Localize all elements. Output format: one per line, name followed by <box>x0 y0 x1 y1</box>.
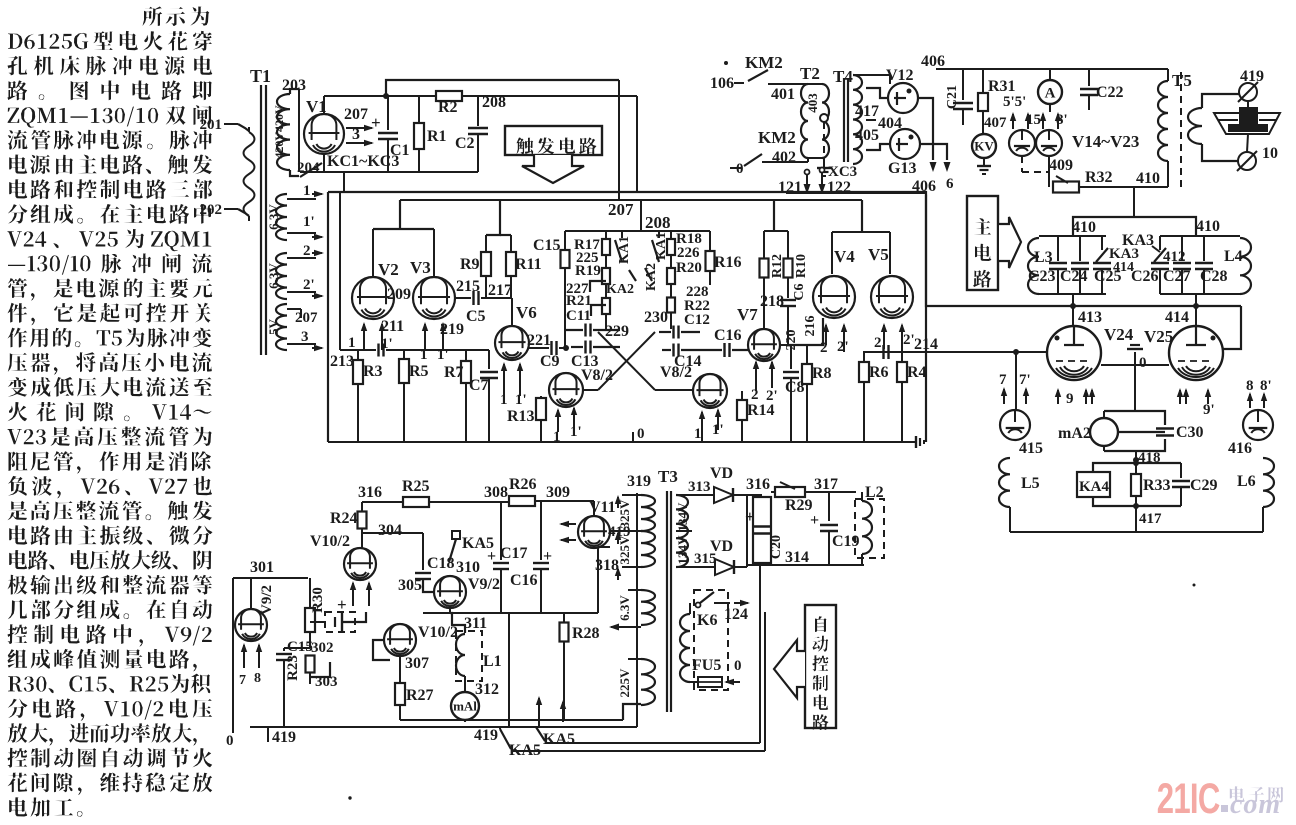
svg-text:L5: L5 <box>1021 475 1040 492</box>
svg-text:C9: C9 <box>540 353 560 370</box>
svg-text:134V: 134V <box>675 502 690 532</box>
T3 winding 225V <box>617 659 655 705</box>
svg-text:316: 316 <box>746 476 770 493</box>
svg-text:R33: R33 <box>1143 477 1171 494</box>
wire 301 bus <box>233 559 308 578</box>
wire 414 <box>1165 294 1199 326</box>
svg-text:G13: G13 <box>888 160 916 177</box>
svg-text:R10: R10 <box>794 254 809 278</box>
label 419 right <box>474 727 498 744</box>
label 406 <box>912 178 936 195</box>
svg-text:C6: C6 <box>792 283 807 300</box>
tap 1' <box>287 214 324 240</box>
svg-text:L6: L6 <box>1237 473 1256 490</box>
switch KA2 right <box>644 263 659 291</box>
svg-text:XC3: XC3 <box>828 164 857 180</box>
switch KA5 a <box>500 727 541 759</box>
svg-text:V25: V25 <box>1144 327 1173 346</box>
label 418 <box>1133 450 1161 466</box>
wire KA3 box top <box>1073 217 1196 236</box>
svg-text:0: 0 <box>1139 355 1147 371</box>
meter KV <box>972 130 996 158</box>
tube V11 <box>578 499 616 548</box>
resistor R19 <box>575 255 610 284</box>
svg-text:1: 1 <box>553 429 561 445</box>
wire 214 <box>863 336 1047 353</box>
tube V8/2 right <box>660 364 727 408</box>
wire 406 corner to 413 bus <box>926 195 1241 307</box>
resistor R11 <box>506 235 542 298</box>
svg-text:304: 304 <box>378 522 402 539</box>
wire 613 bus <box>423 612 598 614</box>
wire T5 sec bottom <box>1202 144 1240 161</box>
label 208 inner <box>641 200 671 232</box>
svg-text:C12: C12 <box>684 312 710 328</box>
wire riser 760 <box>759 565 761 743</box>
svg-text:V14~V23: V14~V23 <box>1072 132 1139 151</box>
svg-text:V9/2: V9/2 <box>468 576 500 593</box>
wire T1 203 top <box>290 89 299 172</box>
svg-text:+: + <box>487 548 496 565</box>
label 218 <box>760 293 784 310</box>
svg-text:KM2: KM2 <box>758 128 796 147</box>
label 219 <box>440 321 464 338</box>
switch KA3 left <box>1096 236 1139 275</box>
label 215 <box>456 278 480 295</box>
svg-text:T3: T3 <box>658 467 678 486</box>
wire bottom bus 417 <box>1010 531 1263 533</box>
label 221 <box>527 332 551 349</box>
resistor R26 <box>509 476 594 506</box>
resistor R8 <box>802 345 832 442</box>
resistor R16 <box>706 231 742 285</box>
wire 722 bus <box>400 704 641 720</box>
auto control arrow <box>774 640 805 698</box>
resistor R24 <box>330 502 367 529</box>
watermark cjk <box>1230 786 1283 802</box>
svg-text:1: 1 <box>348 335 356 351</box>
svg-text:VD: VD <box>710 538 733 555</box>
label 203 <box>282 77 306 94</box>
wire riser 765 <box>764 612 766 751</box>
switch KM2 upper <box>710 53 808 92</box>
svg-text:0: 0 <box>734 658 742 674</box>
svg-text:312: 312 <box>475 681 499 698</box>
damper tube b <box>1036 130 1062 156</box>
svg-text:213: 213 <box>330 353 354 370</box>
svg-text:KM2: KM2 <box>745 53 783 72</box>
wire riser 509 <box>508 613 510 727</box>
wire T1 204 bottom <box>290 170 299 176</box>
svg-text:409: 409 <box>1049 157 1073 174</box>
svg-text:R24: R24 <box>330 510 358 527</box>
svg-text:L1: L1 <box>483 653 502 670</box>
scan speck a <box>724 61 728 65</box>
T1 primary winding 201-202 <box>244 127 255 221</box>
scan speck b <box>348 796 351 799</box>
tap 3 <box>287 329 324 351</box>
label KA3 upper <box>1122 232 1160 252</box>
label 405 <box>855 127 879 144</box>
tube V1 <box>304 97 344 154</box>
tube V2 <box>352 260 399 319</box>
svg-text:218: 218 <box>760 293 784 310</box>
svg-text:0: 0 <box>226 733 234 749</box>
resistor R1 <box>414 96 447 172</box>
resistor R3 <box>353 350 383 442</box>
relay K6 box <box>694 590 728 690</box>
capacitor C6 <box>780 283 807 345</box>
svg-text:316: 316 <box>358 484 382 501</box>
wire R12 R10 top <box>764 200 788 231</box>
EDM gap electrode <box>1214 101 1280 152</box>
transformer T1 label <box>250 66 271 86</box>
tube V10/2 lower <box>373 624 458 660</box>
svg-text:230: 230 <box>644 309 668 326</box>
capacitor C12 <box>659 312 710 339</box>
label 209 <box>387 286 411 303</box>
wire 304 jog <box>362 529 423 548</box>
svg-text:R28: R28 <box>572 625 600 642</box>
svg-text:2: 2 <box>303 243 311 259</box>
wire V9/2 down <box>449 608 451 613</box>
label 225 <box>576 250 599 266</box>
svg-text:KA3: KA3 <box>1122 232 1154 249</box>
svg-text:5V: 5V <box>266 318 281 335</box>
damper tube a <box>1009 130 1035 156</box>
svg-text:6.3V: 6.3V <box>266 263 281 289</box>
svg-text:419: 419 <box>272 729 296 746</box>
capacitor C16 lower <box>510 501 552 613</box>
pins V10/2 upper <box>350 581 372 606</box>
svg-text:202: 202 <box>200 202 223 218</box>
svg-text:216: 216 <box>803 316 818 337</box>
svg-text:403: 403 <box>805 93 820 113</box>
tube G13 <box>888 129 920 177</box>
svg-text:203: 203 <box>282 77 306 94</box>
svg-text:308: 308 <box>484 484 508 501</box>
tube V9/2 (310) <box>434 576 500 608</box>
svg-text:1': 1' <box>570 424 582 440</box>
resistor R14 <box>737 391 775 442</box>
pins 9 <box>1055 388 1095 407</box>
svg-text:R32: R32 <box>1085 169 1113 186</box>
svg-text:0: 0 <box>637 426 645 442</box>
oscillator box bottom <box>328 441 912 443</box>
resistor R17 <box>574 231 610 255</box>
label 309 <box>546 484 570 501</box>
svg-text:204: 204 <box>297 160 320 176</box>
label 307 <box>405 655 429 672</box>
svg-text:2': 2' <box>837 339 849 355</box>
svg-text:T1: T1 <box>250 66 271 86</box>
svg-text:V6: V6 <box>516 303 537 322</box>
cross-coupling wires <box>582 281 694 390</box>
capacitor C19 <box>810 492 860 565</box>
resistor R21 <box>566 284 610 314</box>
svg-text:207: 207 <box>608 200 634 219</box>
T3 winding 325V a <box>617 495 655 531</box>
tap 2' <box>287 277 324 299</box>
switch K6 <box>696 592 718 629</box>
wire V25 grid right <box>1223 306 1241 349</box>
wire V24 V25 cathode link <box>1101 365 1169 411</box>
switch KM2 lower <box>730 128 808 177</box>
capacitor 211 <box>379 344 384 357</box>
label 228 <box>686 284 709 300</box>
svg-text:R21: R21 <box>566 293 592 309</box>
transformer T4 <box>833 67 862 164</box>
svg-text:229: 229 <box>605 323 629 340</box>
svg-text:R13: R13 <box>507 408 535 425</box>
svg-text:201: 201 <box>200 117 223 133</box>
svg-text:21IC: 21IC <box>1157 774 1220 822</box>
wire mA1 bottom <box>464 720 466 722</box>
trigger circuit box <box>505 126 602 155</box>
label 305 <box>398 577 422 594</box>
capacitor C11 <box>566 305 606 324</box>
svg-text:L4: L4 <box>1224 248 1243 265</box>
svg-text:3: 3 <box>352 126 360 143</box>
labels 5'5' <box>1003 94 1026 110</box>
svg-text:420V420V: 420V420V <box>272 105 286 159</box>
label V14~V23 <box>1072 132 1139 151</box>
label 213 <box>330 353 354 370</box>
main circuit banner arrow <box>999 217 1021 268</box>
connector 419 <box>1238 68 1264 102</box>
tube V7 <box>737 305 780 361</box>
svg-text:R6: R6 <box>869 364 889 381</box>
svg-text:410: 410 <box>1072 219 1096 236</box>
svg-text:6: 6 <box>946 176 954 192</box>
svg-text:9': 9' <box>1203 402 1215 418</box>
svg-text:1': 1' <box>303 214 315 230</box>
svg-text:134V: 134V <box>675 535 690 565</box>
T3 taps 325V <box>615 495 641 580</box>
label 311 <box>464 615 487 632</box>
svg-text:208: 208 <box>645 213 671 232</box>
svg-text:10: 10 <box>1262 145 1278 162</box>
tube V9/2 (301) <box>235 578 275 641</box>
svg-text:C17: C17 <box>500 545 528 562</box>
fuse FU5 <box>692 657 722 687</box>
diode VD 315 <box>694 538 747 575</box>
wire drop to osc box <box>343 172 345 192</box>
inductor L4 <box>1224 236 1251 294</box>
svg-text:KA5: KA5 <box>543 731 575 748</box>
terminal 202 <box>200 202 250 218</box>
wire T4 to G13 <box>866 144 890 150</box>
svg-text:401: 401 <box>771 86 795 103</box>
trigger box arrow down <box>522 155 584 183</box>
arrows pins <box>1010 112 1061 129</box>
svg-text:414: 414 <box>1165 309 1189 326</box>
svg-text:217: 217 <box>488 282 512 299</box>
resistor R9 <box>460 235 491 298</box>
resistor R29 <box>775 482 813 514</box>
label 318 <box>595 557 619 574</box>
svg-text:K6: K6 <box>697 612 717 629</box>
svg-text:+: + <box>745 507 755 526</box>
svg-text:405: 405 <box>855 127 879 144</box>
capacitor C24 <box>1060 236 1089 294</box>
svg-text:402: 402 <box>772 149 796 166</box>
transformer T3 label <box>658 467 678 486</box>
capacitor C8 <box>779 345 805 442</box>
T3 winding 325V b <box>617 531 655 567</box>
transformer T3 core <box>667 491 671 712</box>
wire top bus 207 <box>386 80 619 96</box>
T3 tap bus <box>636 493 638 727</box>
svg-text:310: 310 <box>456 559 480 576</box>
wire L3 bank bottom <box>1039 293 1106 295</box>
label 226 <box>677 245 700 261</box>
label 8' <box>1056 112 1068 128</box>
label 15 <box>1026 112 1041 128</box>
label 304 <box>378 522 402 539</box>
label 316 t3 <box>746 476 770 493</box>
tube V12 <box>853 67 918 113</box>
svg-text:417: 417 <box>1139 511 1162 527</box>
wire 316 bus <box>358 484 404 502</box>
capacitor C21 <box>945 69 973 125</box>
pins V8/2 left <box>553 406 582 445</box>
capacitor C13 <box>571 341 599 371</box>
svg-text:313: 313 <box>688 479 711 495</box>
wire top bus 406 <box>921 53 1166 70</box>
svg-text:407: 407 <box>984 115 1007 131</box>
capacitor C17 <box>487 501 528 613</box>
resistor R22 <box>667 284 710 314</box>
pins V5 <box>874 323 915 352</box>
resistor R31 <box>978 69 1016 130</box>
pins 9' <box>1177 388 1215 418</box>
svg-text:C16: C16 <box>714 327 742 344</box>
svg-text:R4: R4 <box>907 364 927 381</box>
capacitor C23 <box>1028 236 1067 294</box>
svg-text:C5: C5 <box>466 308 486 325</box>
T1 secondary 6.3V no.2 <box>266 253 287 299</box>
label 208 <box>478 94 506 111</box>
svg-text:FU5: FU5 <box>692 657 721 674</box>
wire 410 row <box>1079 170 1166 187</box>
label 312 <box>475 681 499 698</box>
resistor R32 <box>1049 156 1113 193</box>
svg-text:7: 7 <box>999 372 1007 388</box>
label 303 <box>310 662 338 690</box>
wire T5 sec top <box>1202 94 1240 108</box>
wire riser 563 <box>560 700 566 722</box>
capacitor C15 <box>533 231 570 348</box>
svg-text:2': 2' <box>303 277 315 293</box>
label 207 inner <box>608 200 634 219</box>
T1 winding 420V <box>272 94 290 170</box>
tap 2 <box>287 243 324 259</box>
wire K6 out <box>714 600 750 623</box>
transformer T5 core <box>1180 72 1182 188</box>
svg-text:209: 209 <box>387 286 411 303</box>
meter mA1 <box>451 692 479 720</box>
wire 214 to V24 grid <box>1013 349 1047 410</box>
capacitor C18 <box>415 533 455 592</box>
label 0 fuse <box>724 658 742 685</box>
wire bus 121 <box>786 192 926 194</box>
capacitor C2 <box>455 96 488 172</box>
tap 1 <box>287 183 324 199</box>
wire C6 to V4 <box>788 318 823 345</box>
svg-text:7': 7' <box>1019 372 1031 388</box>
svg-text:207: 207 <box>344 106 368 123</box>
label 302 <box>311 640 334 656</box>
svg-text:R19: R19 <box>575 263 601 279</box>
svg-text:417: 417 <box>855 103 879 120</box>
svg-text:214: 214 <box>914 336 938 353</box>
resistor R4 <box>897 352 927 442</box>
svg-text:410: 410 <box>1136 170 1160 187</box>
wire 419 bus <box>250 727 637 746</box>
inductor L1 <box>450 613 502 692</box>
label 401 <box>771 84 795 103</box>
inductor L3 <box>1028 238 1053 294</box>
terminal 201 <box>200 117 250 133</box>
wire 314 bus <box>747 549 864 566</box>
svg-text:+: + <box>810 512 819 529</box>
watermark 21IC <box>1157 774 1220 822</box>
ground node 0 <box>1127 345 1147 371</box>
transformer T5 secondary <box>1188 108 1202 144</box>
capacitor C7 <box>469 350 498 442</box>
T3 winding 6.3V <box>609 590 655 631</box>
transformer T2 <box>800 64 831 176</box>
svg-text:+: + <box>543 548 552 565</box>
label 410 right <box>1196 218 1220 235</box>
svg-text:C26: C26 <box>1131 268 1159 285</box>
svg-text:KA4: KA4 <box>1079 479 1110 495</box>
capacitor C5 <box>455 291 512 325</box>
svg-text:KV: KV <box>974 139 994 154</box>
svg-text:R14: R14 <box>747 402 775 419</box>
wire ka box top <box>565 230 710 232</box>
svg-text:221: 221 <box>527 332 551 349</box>
inductor L5 <box>999 440 1040 532</box>
svg-text:C22: C22 <box>1096 84 1124 101</box>
svg-text:A: A <box>1045 85 1056 101</box>
svg-text:2': 2' <box>903 332 915 348</box>
capacitor C1 <box>371 96 410 172</box>
svg-text:R25: R25 <box>402 478 430 495</box>
pins 8 8' <box>1246 378 1272 408</box>
wire KA4 box <box>1093 463 1181 506</box>
resistor R18 <box>667 231 702 255</box>
pins V2 <box>348 322 393 352</box>
wire left bus 213 <box>340 192 489 350</box>
svg-text:R1: R1 <box>427 128 447 145</box>
label 230 <box>644 309 668 326</box>
svg-text:C2: C2 <box>455 135 475 152</box>
svg-text:317: 317 <box>814 476 838 493</box>
ground at box bottom right <box>912 436 924 448</box>
capacitor C14 <box>662 332 702 370</box>
main circuit banner box <box>967 196 998 290</box>
label XC3 <box>828 164 857 180</box>
svg-text:C24: C24 <box>1060 268 1088 285</box>
svg-text:415: 415 <box>1019 440 1043 457</box>
pins 7 7' <box>999 372 1031 404</box>
capacitor C15 lower <box>276 639 313 727</box>
switch KA1 right <box>652 231 669 262</box>
label 217 <box>488 282 512 299</box>
svg-text:410: 410 <box>1196 218 1220 235</box>
